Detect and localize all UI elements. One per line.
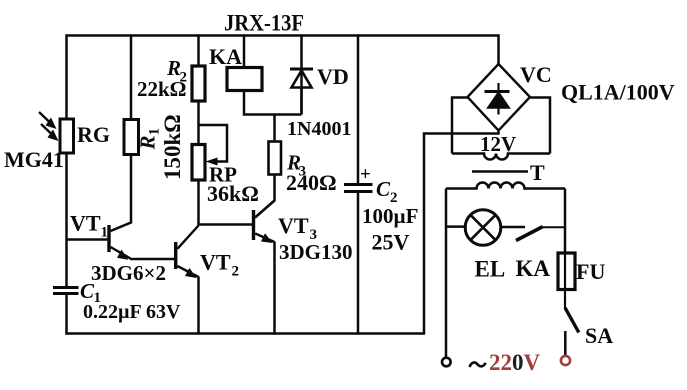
- fuse FU: [558, 253, 575, 308]
- svg-text:0.22µF 63V: 0.22µF 63V: [83, 301, 181, 323]
- diode VD: [290, 69, 313, 115]
- svg-text:1: 1: [101, 225, 109, 241]
- svg-text:KA: KA: [516, 256, 551, 281]
- svg-text:150kΩ: 150kΩ: [160, 114, 185, 180]
- svg-text:100µF: 100µF: [362, 204, 418, 228]
- svg-text:QL1A/100V: QL1A/100V: [561, 80, 675, 105]
- wire C2 lower: [357, 192, 360, 335]
- svg-text:36kΩ: 36kΩ: [207, 181, 259, 206]
- wire R3 top: [273, 115, 276, 143]
- wire RP to VT2 collector node: [197, 180, 200, 226]
- wire R2 to RP: [197, 101, 200, 145]
- svg-text:MG41: MG41: [4, 147, 64, 172]
- potentiometer RP: [192, 145, 205, 181]
- transistor VT1: [107, 225, 174, 260]
- wire VT3 base: [199, 223, 253, 226]
- label ~220V: [470, 362, 486, 367]
- terminal right (red): [561, 356, 570, 365]
- wire KA bottom to VD bottom: [244, 91, 302, 115]
- wire VT1 base: [67, 238, 109, 241]
- wire left vertical upper: [65, 34, 68, 120]
- capacitor C2: [344, 185, 373, 192]
- wire RP wiper loop: [199, 125, 228, 162]
- terminal left: [442, 358, 451, 367]
- svg-text:FU: FU: [576, 259, 605, 284]
- wire KA branch upper: [243, 34, 246, 68]
- diode inside VC: [485, 83, 510, 115]
- wire left vertical lower: [65, 294, 68, 335]
- winding 12V secondary: [452, 154, 550, 160]
- wire top rail: [66, 34, 500, 37]
- svg-text:240Ω: 240Ω: [286, 170, 337, 195]
- relay coil KA: [227, 68, 262, 91]
- wire SA lower: [564, 331, 567, 356]
- wire R1 branch upper: [130, 34, 133, 120]
- resistor R2: [192, 66, 205, 101]
- wire VT2 emitter to bottom: [197, 277, 200, 335]
- svg-text:SA: SA: [585, 323, 613, 348]
- svg-text:VC: VC: [520, 62, 552, 87]
- lamp EL: [465, 210, 501, 246]
- switch SA blade: [565, 308, 579, 333]
- transformer T core: [472, 170, 528, 173]
- svg-text:RG: RG: [77, 122, 110, 147]
- svg-text:25V: 25V: [372, 230, 410, 255]
- wire R2 branch upper: [197, 34, 200, 67]
- wire bridge AC right: [530, 98, 550, 154]
- wire bridge DC minus: [424, 131, 499, 335]
- svg-text:VT: VT: [278, 213, 309, 238]
- wire VD branch upper: [300, 34, 303, 114]
- svg-text:C: C: [376, 177, 391, 201]
- svg-text:220V: 220V: [489, 350, 541, 375]
- wire R1 to VT1 collector: [111, 155, 132, 232]
- winding T primary: [446, 183, 565, 189]
- svg-text:3DG6×2: 3DG6×2: [91, 261, 166, 285]
- resistor R1: [124, 120, 139, 155]
- wire C2 branch upper: [357, 34, 360, 184]
- transistor VT3: [252, 201, 275, 244]
- resistor R3: [269, 142, 282, 175]
- contact KA blade: [516, 227, 543, 241]
- wire bridge AC left: [452, 98, 468, 154]
- svg-text:+: +: [360, 164, 371, 185]
- wire R3 to VT3 collector: [255, 175, 275, 218]
- wire VT3 emitter to bottom: [273, 242, 276, 335]
- svg-text:VT: VT: [70, 211, 101, 236]
- wire top rail to bridge: [497, 34, 500, 65]
- svg-text:3DG130: 3DG130: [279, 240, 353, 264]
- wire 220V right vertical: [564, 189, 567, 255]
- svg-text:VD: VD: [317, 64, 349, 89]
- wire bottom rail: [65, 332, 424, 335]
- svg-text:R: R: [136, 135, 160, 150]
- svg-text:22kΩ: 22kΩ: [137, 77, 187, 101]
- wire left vertical mid: [65, 153, 68, 287]
- svg-text:JRX-13F: JRX-13F: [224, 11, 304, 36]
- wire KA contact right: [543, 226, 566, 228]
- svg-text:1N4001: 1N4001: [287, 118, 351, 140]
- transistor VT2: [174, 226, 199, 279]
- rectifier bridge VC diamond: [468, 64, 531, 131]
- wire 220V left vertical: [445, 189, 448, 359]
- wire EL right: [501, 226, 525, 229]
- svg-text:2: 2: [232, 264, 240, 280]
- svg-text:T: T: [530, 160, 545, 185]
- wire EL left: [446, 225, 465, 228]
- capacitor C1: [53, 288, 79, 294]
- svg-text:12V: 12V: [480, 132, 516, 156]
- photo arrows RG: [39, 112, 52, 135]
- svg-text:VT: VT: [200, 250, 231, 275]
- resistor RG: [60, 119, 74, 153]
- svg-text:KA: KA: [209, 44, 242, 69]
- svg-text:EL: EL: [475, 257, 506, 282]
